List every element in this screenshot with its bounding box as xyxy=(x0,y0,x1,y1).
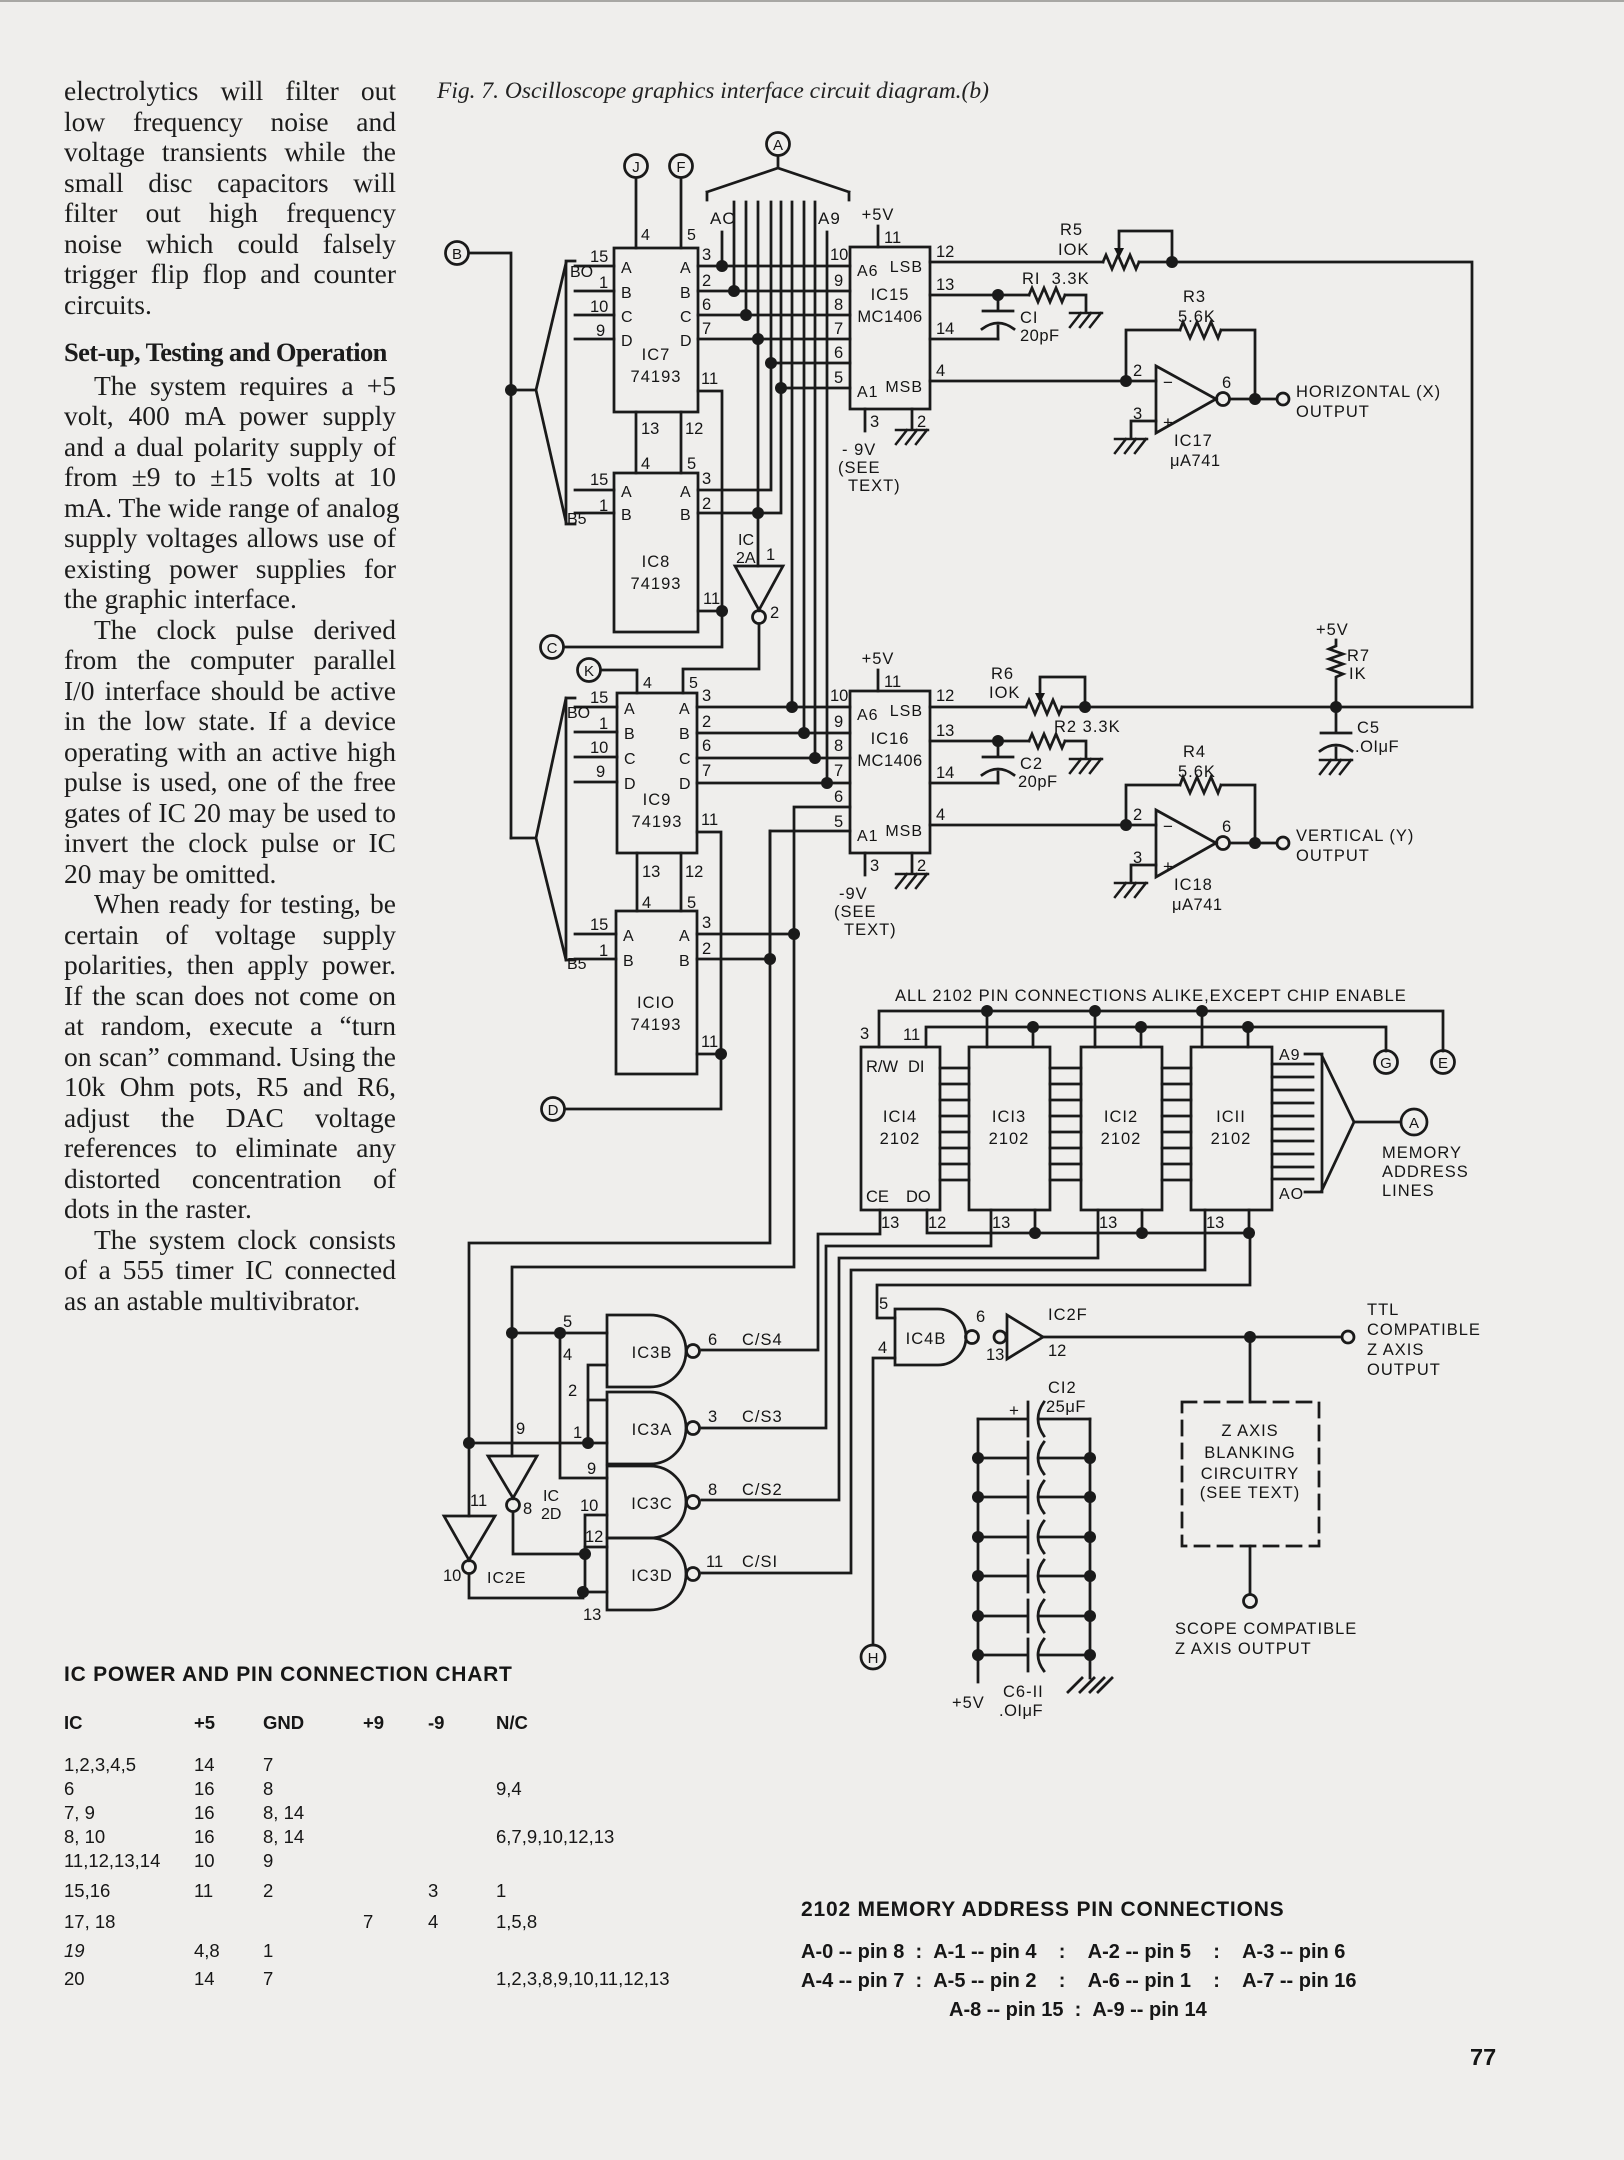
node dots cap bank xyxy=(972,1452,984,1464)
svg-text:15: 15 xyxy=(590,916,608,934)
svg-text:K: K xyxy=(584,663,594,680)
node dot A8 row xyxy=(809,752,821,764)
inverter IC2E xyxy=(444,1516,495,1574)
resistor R4 5.6K feedback xyxy=(1126,743,1255,843)
svg-text:10: 10 xyxy=(580,1497,598,1515)
svg-text:11: 11 xyxy=(703,590,720,608)
wire gates feed line upper xyxy=(469,831,770,1516)
svg-text:6: 6 xyxy=(834,344,843,362)
node dot A0 row xyxy=(716,260,728,272)
inverter IC2F xyxy=(994,1315,1043,1359)
nand IC4B xyxy=(895,1309,979,1365)
ground IC15 pin2 xyxy=(911,409,914,428)
svg-text:5: 5 xyxy=(834,369,843,387)
potentiometer R6 10K xyxy=(989,665,1085,714)
wire IC18 output xyxy=(1230,842,1277,845)
wire IC4B pin4 to H xyxy=(873,1358,895,1645)
svg-text:2A: 2A xyxy=(736,550,756,567)
wire IC7 to IC8 cascade pins 13,12 to 4,5 xyxy=(636,412,681,473)
svg-text:IC3D: IC3D xyxy=(631,1567,673,1585)
svg-text:IC4B: IC4B xyxy=(906,1330,947,1348)
svg-text:-9V: -9V xyxy=(839,885,868,903)
wire IC15 pin12 LSB to R5 xyxy=(930,261,1103,264)
svg-text:μA741: μA741 xyxy=(1170,452,1221,470)
svg-text:6: 6 xyxy=(708,1331,717,1349)
svg-text:ICI3: ICI3 xyxy=(992,1108,1026,1126)
svg-text:R3: R3 xyxy=(1183,288,1206,306)
svg-text:74193: 74193 xyxy=(631,1016,682,1034)
ground IC16 pin2 xyxy=(911,853,914,872)
svg-text:A6: A6 xyxy=(857,707,879,724)
svg-text:J: J xyxy=(632,159,640,176)
svg-text:A1: A1 xyxy=(857,384,879,401)
svg-text:2: 2 xyxy=(1133,362,1142,380)
connector A address fan xyxy=(767,133,790,156)
svg-text:6: 6 xyxy=(834,788,843,806)
svg-text:OUTPUT: OUTPUT xyxy=(1296,403,1370,421)
svg-text:IC: IC xyxy=(738,532,754,549)
capacitor C5 .01uF xyxy=(1320,707,1399,758)
wire IC10 B out to IC16 pin5 line xyxy=(697,958,770,961)
node dot pin1 tap xyxy=(582,1437,594,1449)
svg-text:13: 13 xyxy=(881,1214,899,1232)
svg-text:4: 4 xyxy=(563,1346,572,1364)
wire IC18 plus input to ground xyxy=(1131,865,1156,881)
svg-text:+5V: +5V xyxy=(1316,621,1349,639)
svg-text:D: D xyxy=(624,776,636,793)
svg-text:11: 11 xyxy=(701,370,718,388)
svg-text:10: 10 xyxy=(590,739,608,757)
svg-text:3: 3 xyxy=(702,246,711,264)
svg-text:9: 9 xyxy=(596,322,605,340)
svg-text:C: C xyxy=(621,309,633,326)
svg-text:+: + xyxy=(1009,1401,1019,1420)
node dot output X xyxy=(1249,393,1261,405)
IC power and pin connection chart xyxy=(64,1663,513,1687)
svg-text:IC15: IC15 xyxy=(871,286,910,304)
node dot IC2A input tap xyxy=(752,507,764,519)
svg-text:ICI2: ICI2 xyxy=(1104,1108,1138,1126)
svg-text:2: 2 xyxy=(702,940,711,958)
svg-text:10: 10 xyxy=(590,298,608,316)
wire bus A4 to IC8 pin3 xyxy=(698,202,771,490)
svg-text:A: A xyxy=(621,260,632,277)
capacitor C10 xyxy=(978,1600,1090,1632)
svg-text:IC17: IC17 xyxy=(1174,432,1213,450)
node dot output Y xyxy=(1249,837,1261,849)
svg-text:ALL 2102 PIN CONNECTIONS ALIKE: ALL 2102 PIN CONNECTIONS ALIKE,EXCEPT CH… xyxy=(895,987,1407,1005)
svg-text:A: A xyxy=(679,928,690,945)
ground R2 xyxy=(1070,759,1102,773)
svg-text:14: 14 xyxy=(936,320,954,338)
wire IC17 output xyxy=(1230,398,1277,401)
op-amp IC18 uA741 xyxy=(1156,810,1230,914)
svg-text:20pF: 20pF xyxy=(1020,327,1060,345)
wire R1 to ground xyxy=(1065,295,1086,311)
wire ladder IC14-IC13 xyxy=(940,1068,969,1180)
resistor R7 1K xyxy=(1316,621,1370,707)
wire J to IC7 pin4 xyxy=(635,178,638,248)
svg-text:LINES: LINES xyxy=(1382,1182,1435,1200)
wire IC8 pin11 row xyxy=(698,610,722,613)
capacitor C8 xyxy=(978,1521,1090,1553)
svg-text:11: 11 xyxy=(903,1026,920,1044)
svg-text:CE: CE xyxy=(866,1188,889,1206)
svg-text:CI: CI xyxy=(1020,309,1039,327)
wire ladder IC12-IC11 xyxy=(1162,1068,1191,1180)
svg-text:11: 11 xyxy=(701,811,718,829)
wire input bracket IC7/IC8 xyxy=(566,261,575,524)
wire gates feed line lower xyxy=(512,934,794,1456)
svg-text:+5V: +5V xyxy=(862,650,895,668)
wire Z axis line xyxy=(1043,1336,1341,1339)
svg-text:15: 15 xyxy=(590,689,608,707)
svg-text:COMPATIBLE: COMPATIBLE xyxy=(1367,1321,1481,1339)
svg-text:F: F xyxy=(676,159,685,176)
wire IC2A out to IC9 pin5 xyxy=(683,624,759,693)
wire IC16 pin4 MSB to op-amp xyxy=(930,824,1156,827)
svg-text:VERTICAL (Y): VERTICAL (Y) xyxy=(1296,827,1414,845)
svg-text:11: 11 xyxy=(884,673,901,691)
capacitor C6 xyxy=(978,1442,1090,1474)
svg-text:3: 3 xyxy=(708,1408,717,1426)
svg-text:IC2E: IC2E xyxy=(487,1570,527,1587)
svg-text:+5V: +5V xyxy=(952,1694,985,1712)
svg-text:3: 3 xyxy=(702,687,711,705)
potentiometer R5 10K xyxy=(1058,221,1172,269)
memory IC11 2102 xyxy=(1191,1047,1272,1210)
wire IC9 pin11 xyxy=(697,832,721,1054)
capacitor C2 20pF xyxy=(982,741,1058,791)
svg-text:1: 1 xyxy=(599,497,608,515)
wire CE IC11 to CS1 xyxy=(702,1210,1205,1573)
svg-text:5: 5 xyxy=(879,1295,888,1313)
svg-text:ICIO: ICIO xyxy=(637,994,675,1012)
svg-text:A1: A1 xyxy=(857,828,879,845)
node dot Z tap xyxy=(1244,1331,1256,1343)
svg-text:ICII: ICII xyxy=(1216,1108,1246,1126)
wire IC10 pin11 xyxy=(697,1053,721,1056)
svg-text:AO: AO xyxy=(710,209,737,228)
svg-text:2: 2 xyxy=(917,857,926,875)
node dot C1 tap xyxy=(992,289,1004,301)
svg-text:9: 9 xyxy=(587,1460,596,1478)
wire fan IC9/IC10 xyxy=(511,698,566,960)
svg-text:2: 2 xyxy=(702,272,711,290)
ground IC17 xyxy=(1115,439,1147,453)
svg-text:A: A xyxy=(624,701,635,718)
svg-text:8: 8 xyxy=(834,737,843,755)
node dot A6 row xyxy=(786,701,798,713)
svg-text:4: 4 xyxy=(642,894,651,912)
svg-text:3: 3 xyxy=(702,470,711,488)
svg-text:6: 6 xyxy=(976,1308,985,1326)
svg-text:(SEE: (SEE xyxy=(834,903,877,921)
terminal scope Z output xyxy=(1244,1595,1257,1608)
wire K to IC9 pin4 xyxy=(601,670,637,693)
svg-text:D: D xyxy=(621,333,633,350)
svg-text:6: 6 xyxy=(702,737,711,755)
wire input bracket IC9/IC10 xyxy=(566,698,575,960)
ground C5 xyxy=(1320,760,1352,774)
wire IC3B pin5 row xyxy=(512,1332,607,1335)
svg-text:13: 13 xyxy=(1099,1214,1117,1232)
svg-text:3: 3 xyxy=(870,413,879,431)
svg-text:AO: AO xyxy=(1279,1186,1304,1203)
svg-text:−: − xyxy=(1163,817,1173,836)
svg-text:11: 11 xyxy=(706,1553,723,1571)
connector D xyxy=(542,1098,565,1121)
svg-text:.OIμF: .OIμF xyxy=(999,1702,1043,1720)
wire IC7 pin11 xyxy=(698,391,722,611)
connector B xyxy=(446,242,469,265)
svg-text:OUTPUT: OUTPUT xyxy=(1296,847,1370,865)
memory IC12 2102 xyxy=(1081,1047,1162,1210)
wire memory bus line2 DI xyxy=(926,1027,1386,1051)
wire A4 to IC15 pin6 xyxy=(771,362,850,365)
svg-text:B: B xyxy=(624,726,635,743)
svg-text:MSB: MSB xyxy=(885,823,923,840)
svg-text:13: 13 xyxy=(583,1606,601,1624)
svg-text:3: 3 xyxy=(860,1025,869,1043)
svg-text:2: 2 xyxy=(702,713,711,731)
counter IC7 74193 xyxy=(614,248,698,412)
wire address brace xyxy=(1305,1054,1400,1192)
svg-text:8: 8 xyxy=(834,296,843,314)
svg-text:.OIμF: .OIμF xyxy=(1355,738,1399,756)
svg-text:A6: A6 xyxy=(857,263,879,280)
wire line2 taps to chips xyxy=(1033,1027,1248,1047)
wire IC2D out xyxy=(513,1512,585,1554)
ground cap bank xyxy=(1068,1678,1112,1692)
svg-text:HORIZONTAL (X): HORIZONTAL (X) xyxy=(1296,383,1441,401)
wire IC10 input stubs xyxy=(575,934,616,959)
svg-text:15: 15 xyxy=(590,471,608,489)
svg-text:4: 4 xyxy=(936,362,945,380)
svg-text:3: 3 xyxy=(702,914,711,932)
svg-text:2: 2 xyxy=(568,1382,577,1400)
svg-text:R6: R6 xyxy=(991,665,1014,683)
svg-text:A: A xyxy=(679,701,690,718)
svg-text:A: A xyxy=(621,484,632,501)
svg-text:1: 1 xyxy=(766,546,775,564)
node dot gates feed lower xyxy=(506,1327,518,1339)
svg-text:13: 13 xyxy=(641,420,659,438)
svg-text:C6-II: C6-II xyxy=(1003,1683,1044,1701)
node dots line2 xyxy=(1027,1021,1039,1033)
svg-text:CIRCUITRY: CIRCUITRY xyxy=(1201,1465,1300,1483)
svg-text:12: 12 xyxy=(685,863,703,881)
svg-text:Z AXIS: Z AXIS xyxy=(1367,1341,1424,1359)
svg-text:C2: C2 xyxy=(1020,755,1043,773)
svg-text:D: D xyxy=(680,333,692,350)
wire CE IC13 to CS3 xyxy=(702,1210,991,1428)
svg-text:14: 14 xyxy=(936,764,954,782)
svg-text:13: 13 xyxy=(642,863,660,881)
svg-text:C/SI: C/SI xyxy=(742,1553,778,1571)
svg-text:5: 5 xyxy=(563,1313,572,1331)
svg-text:BLANKING: BLANKING xyxy=(1204,1444,1295,1462)
terminal Y output xyxy=(1277,837,1289,849)
svg-text:A: A xyxy=(623,928,634,945)
power -9V IC16 pin3 xyxy=(864,853,867,875)
figure caption xyxy=(437,78,989,105)
svg-text:1: 1 xyxy=(599,274,608,292)
wire DO taps xyxy=(1035,1210,1249,1233)
capacitor C9 xyxy=(978,1560,1090,1592)
node dot feedback tap Y xyxy=(1120,819,1132,831)
svg-text:10: 10 xyxy=(443,1567,461,1585)
wire IC9 A out row to IC16 xyxy=(697,706,850,709)
wire CE IC12 to CS2 xyxy=(702,1210,1098,1500)
wire R6 to right rail xyxy=(1062,706,1472,709)
svg-text:OUTPUT: OUTPUT xyxy=(1367,1361,1441,1379)
node dot IC10 B xyxy=(764,953,776,965)
svg-text:H: H xyxy=(868,1650,879,1667)
svg-text:R4: R4 xyxy=(1183,743,1206,761)
svg-text:R7: R7 xyxy=(1347,647,1370,665)
svg-text:12: 12 xyxy=(1048,1342,1066,1360)
svg-text:C: C xyxy=(679,751,691,768)
wire bus A7 xyxy=(803,202,806,733)
svg-text:TEXT): TEXT) xyxy=(844,921,897,939)
svg-text:C/S4: C/S4 xyxy=(742,1331,783,1349)
svg-text:CI2: CI2 xyxy=(1048,1379,1077,1397)
svg-text:1: 1 xyxy=(573,1424,582,1442)
node dot R7 C5 junction xyxy=(1330,701,1342,713)
svg-text:5: 5 xyxy=(689,675,698,692)
svg-text:+5V: +5V xyxy=(862,206,895,224)
body text column xyxy=(64,76,396,1316)
svg-text:C: C xyxy=(624,751,636,768)
counter IC8 74193 xyxy=(614,473,698,632)
svg-text:12: 12 xyxy=(928,1214,946,1232)
svg-text:2: 2 xyxy=(1133,806,1142,824)
svg-text:A9: A9 xyxy=(1279,1047,1301,1064)
svg-text:4: 4 xyxy=(641,227,650,244)
svg-text:13: 13 xyxy=(986,1346,1004,1364)
svg-text:MC1406: MC1406 xyxy=(857,752,922,770)
svg-text:20pF: 20pF xyxy=(1018,773,1058,791)
svg-text:2102: 2102 xyxy=(989,1130,1030,1148)
node dot IC8 pin11 xyxy=(716,605,728,617)
svg-text:7: 7 xyxy=(702,762,711,780)
wire IC8 input stubs xyxy=(575,490,614,513)
node dot IC10 pin11 xyxy=(715,1048,727,1060)
svg-text:74193: 74193 xyxy=(631,575,682,593)
svg-text:2: 2 xyxy=(917,413,926,431)
nand IC3D xyxy=(607,1538,700,1610)
svg-text:11: 11 xyxy=(884,229,901,247)
svg-text:2: 2 xyxy=(770,604,779,622)
node dot IC10 A xyxy=(788,928,800,940)
svg-text:10: 10 xyxy=(830,687,848,705)
wire cap bank left bus xyxy=(977,1419,980,1682)
wire cap bank right bus xyxy=(1089,1419,1092,1678)
wire bus A5 to IC8 pin2 xyxy=(698,202,781,513)
wire IC7 C out row xyxy=(698,314,850,317)
wire IC2E out to IC3D pin13 xyxy=(469,1574,607,1598)
svg-text:E: E xyxy=(1438,1055,1448,1072)
wire bus A2 xyxy=(745,202,748,315)
node dot gates feed upper xyxy=(463,1437,475,1449)
svg-text:7: 7 xyxy=(702,320,711,338)
svg-text:5.6K: 5.6K xyxy=(1178,308,1216,326)
svg-text:DI: DI xyxy=(908,1058,925,1076)
svg-text:IK: IK xyxy=(1349,665,1367,683)
wire IC15 pin13 to R1 xyxy=(930,294,1029,297)
wire IC16 pin12 LSB to R6 xyxy=(930,706,1026,709)
svg-text:B: B xyxy=(623,953,634,970)
svg-text:B: B xyxy=(680,285,691,302)
svg-text:IC3A: IC3A xyxy=(632,1421,673,1439)
svg-text:74193: 74193 xyxy=(632,813,683,831)
node dot A5 row xyxy=(775,382,787,394)
wire IC7 input stubs xyxy=(575,266,614,339)
svg-text:IOK: IOK xyxy=(989,684,1020,702)
svg-text:R5: R5 xyxy=(1060,221,1083,239)
svg-text:IC2F: IC2F xyxy=(1048,1306,1088,1324)
svg-text:IC3B: IC3B xyxy=(632,1344,673,1362)
svg-text:B: B xyxy=(621,285,632,302)
svg-text:74193: 74193 xyxy=(631,368,682,386)
svg-text:IC7: IC7 xyxy=(642,346,671,364)
svg-text:13: 13 xyxy=(936,722,954,740)
wire A tent xyxy=(707,156,849,200)
svg-text:C: C xyxy=(680,309,692,326)
terminal X output xyxy=(1277,393,1289,405)
connector G xyxy=(1375,1051,1398,1074)
svg-text:8: 8 xyxy=(523,1500,532,1518)
wire IC7 A out row to IC15 xyxy=(698,265,850,268)
power -9V IC15 pin3 xyxy=(864,409,867,431)
svg-text:IOK: IOK xyxy=(1058,241,1089,259)
node B junction xyxy=(505,384,517,396)
page number xyxy=(1470,2044,1496,2071)
svg-text:9: 9 xyxy=(516,1420,525,1438)
svg-text:A: A xyxy=(680,484,691,501)
wire C to IC8 pin11 xyxy=(564,611,722,647)
svg-text:2: 2 xyxy=(702,495,711,513)
svg-text:A: A xyxy=(1409,1115,1419,1132)
node dots line1 xyxy=(981,1005,993,1017)
wire IC16 pin14 row xyxy=(930,782,998,785)
svg-text:B: B xyxy=(680,507,691,524)
connector A memory xyxy=(1401,1109,1427,1135)
wire IC16 pin13 to R2 xyxy=(930,740,1029,743)
wire IC3D pin12 row xyxy=(585,1546,607,1549)
svg-text:5: 5 xyxy=(834,813,843,831)
ground IC18 xyxy=(1115,883,1147,897)
svg-text:LSB: LSB xyxy=(890,259,923,276)
connector H xyxy=(861,1645,885,1669)
svg-text:5: 5 xyxy=(687,227,696,244)
node dot A4 row xyxy=(765,357,777,369)
svg-text:MEMORY: MEMORY xyxy=(1382,1144,1462,1162)
svg-text:+: + xyxy=(1163,413,1173,432)
node dot feedback tap X xyxy=(1120,375,1132,387)
wire bus A9 xyxy=(826,232,829,783)
svg-text:6: 6 xyxy=(1222,818,1231,836)
node dot IC2D out xyxy=(579,1548,591,1560)
inverter IC2A xyxy=(735,566,783,624)
wire fan IC7/IC8 xyxy=(511,263,566,522)
page top edge line xyxy=(0,0,1624,2)
svg-text:IC9: IC9 xyxy=(643,791,672,809)
wire line1 taps to chips xyxy=(987,1011,1202,1047)
ground R1 xyxy=(1070,313,1102,327)
svg-text:A: A xyxy=(680,260,691,277)
